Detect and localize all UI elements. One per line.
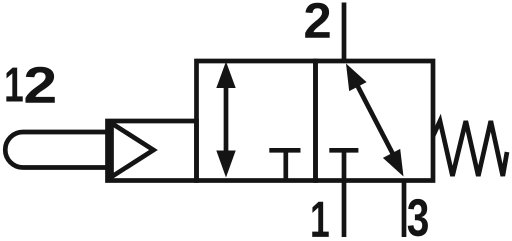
diagonal flow arrow shaft (right square) xyxy=(354,79,396,160)
T stem left square xyxy=(283,150,288,180)
valve body left square xyxy=(197,61,316,181)
pilot capsule (push button stem) xyxy=(5,132,107,168)
diagonal arrow top head xyxy=(346,64,367,92)
spring (zigzag) xyxy=(433,121,507,176)
label 1 (port 1) xyxy=(312,202,329,237)
label 3 (port 3) xyxy=(408,199,428,236)
T bar right square (blocked port 1) xyxy=(329,148,358,153)
label 12 digit 2 xyxy=(25,67,54,103)
pilot box xyxy=(108,121,197,181)
port 1 line with T stem xyxy=(342,150,347,237)
T bar left square (blocked port) xyxy=(269,148,300,153)
pilot triangle (pneumatic pilot symbol) xyxy=(112,123,154,177)
vertical flow arrow shaft (left square) xyxy=(224,80,229,158)
diagonal arrow bottom head xyxy=(383,149,404,177)
label 2 (port 2) xyxy=(305,3,329,38)
vertical arrow top head xyxy=(216,62,235,89)
port 3 line xyxy=(402,181,407,238)
vertical arrow bottom head xyxy=(216,151,235,178)
port 2 line xyxy=(342,3,347,62)
valve body right square xyxy=(316,61,434,181)
label 12 digit 1 xyxy=(6,68,22,102)
